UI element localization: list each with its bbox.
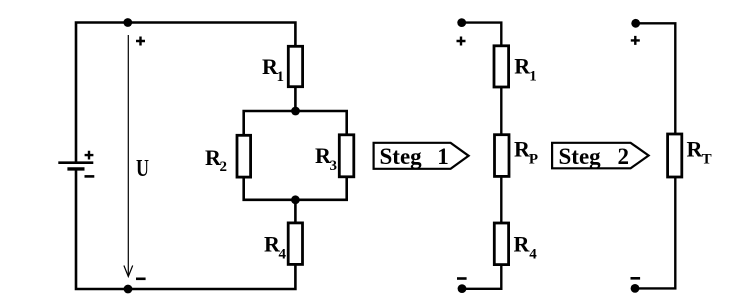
battery V (voltage source) bbox=[58, 163, 93, 169]
svg-text:R: R bbox=[514, 232, 531, 257]
label RT bbox=[687, 137, 712, 168]
svg-text:1: 1 bbox=[529, 68, 537, 84]
wire: parallel-section top rail with branch stubs bbox=[244, 111, 347, 135]
label R1 (left circuit) bbox=[262, 54, 284, 85]
svg-text:1: 1 bbox=[277, 69, 285, 85]
resistor R4 (left circuit) bbox=[288, 223, 302, 265]
node: - terminal of network (bottom) bbox=[124, 285, 133, 294]
resistor Rp (parallel equivalent) bbox=[495, 135, 510, 177]
node: - terminal (Steg 2 circuit) bbox=[631, 284, 640, 293]
label: - (Steg 1 circuit) bbox=[457, 277, 467, 280]
svg-text:4: 4 bbox=[279, 246, 287, 262]
wire: left loop bottom (battery - down, bottom rail, up to R4) bbox=[76, 170, 295, 290]
voltage arrow U (measurement arrow from + to -) bbox=[124, 35, 133, 277]
svg-text:Steg: Steg bbox=[380, 144, 423, 169]
label Rp bbox=[514, 137, 538, 168]
resistor R2 bbox=[237, 135, 251, 177]
label: Steg 1 bbox=[380, 144, 449, 169]
battery - polarity mark bbox=[85, 175, 95, 178]
label: - at bottom terminal bbox=[136, 277, 146, 280]
svg-text:1: 1 bbox=[437, 144, 449, 169]
svg-text:3: 3 bbox=[330, 158, 338, 174]
wire: top lead (Steg 1 circuit) bbox=[462, 23, 502, 46]
label R4 (left circuit) bbox=[264, 231, 287, 262]
svg-text:U: U bbox=[136, 155, 149, 182]
wire: top lead (Steg 2 circuit) bbox=[636, 23, 676, 134]
label R1 (series chain) bbox=[514, 54, 537, 85]
label: + at top terminal bbox=[136, 37, 145, 46]
wire: bottom lead (Steg 1 circuit) bbox=[462, 265, 501, 289]
label: + (Steg 1 circuit) bbox=[457, 37, 466, 46]
resistor R1 (left circuit) bbox=[288, 46, 302, 86]
node: + terminal (Steg 2 circuit) bbox=[631, 19, 640, 28]
resistor R3 bbox=[339, 135, 354, 177]
svg-text:2: 2 bbox=[220, 159, 228, 175]
node: - terminal (Steg 1 circuit) bbox=[458, 284, 467, 293]
wire: parallel-section bottom rail with branch stubs bbox=[244, 177, 347, 200]
resistor R4 (series chain) bbox=[494, 223, 508, 265]
label: Steg 2 bbox=[559, 144, 630, 169]
wire: left loop top (battery + up, top rail, down to R1) bbox=[76, 23, 295, 162]
Steg 1 banner (arrow box) bbox=[374, 143, 469, 169]
resistor RT (total equivalent) bbox=[668, 134, 682, 177]
Steg 2 banner (arrow box) bbox=[552, 143, 649, 169]
label R4 (series chain) bbox=[514, 232, 538, 263]
svg-text:4: 4 bbox=[529, 247, 537, 263]
wire: Rp to R4 bbox=[500, 176, 502, 223]
wire: R1 to Rp bbox=[500, 87, 502, 135]
wire: bottom junction to R4 bbox=[294, 200, 297, 223]
battery + polarity mark bbox=[85, 151, 94, 160]
node: + terminal (Steg 1 circuit) bbox=[457, 18, 466, 27]
svg-text:Steg: Steg bbox=[559, 144, 602, 169]
label: + (Steg 2 circuit) bbox=[631, 36, 640, 45]
svg-text:2: 2 bbox=[618, 144, 630, 169]
svg-text:T: T bbox=[702, 151, 712, 167]
label R2 bbox=[205, 145, 227, 175]
node: junction at top of parallel section bbox=[291, 107, 300, 116]
svg-text:P: P bbox=[529, 152, 538, 168]
resistor R1 (series chain) bbox=[494, 46, 509, 87]
node: + terminal of network (top) bbox=[123, 18, 132, 27]
wire: bottom lead (Steg 2 circuit) bbox=[635, 177, 675, 288]
wire: R1 to top junction bbox=[294, 87, 297, 111]
label: - (Steg 2 circuit) bbox=[631, 277, 641, 280]
node: junction at bottom of parallel section bbox=[291, 195, 300, 204]
label R3 bbox=[315, 143, 337, 174]
